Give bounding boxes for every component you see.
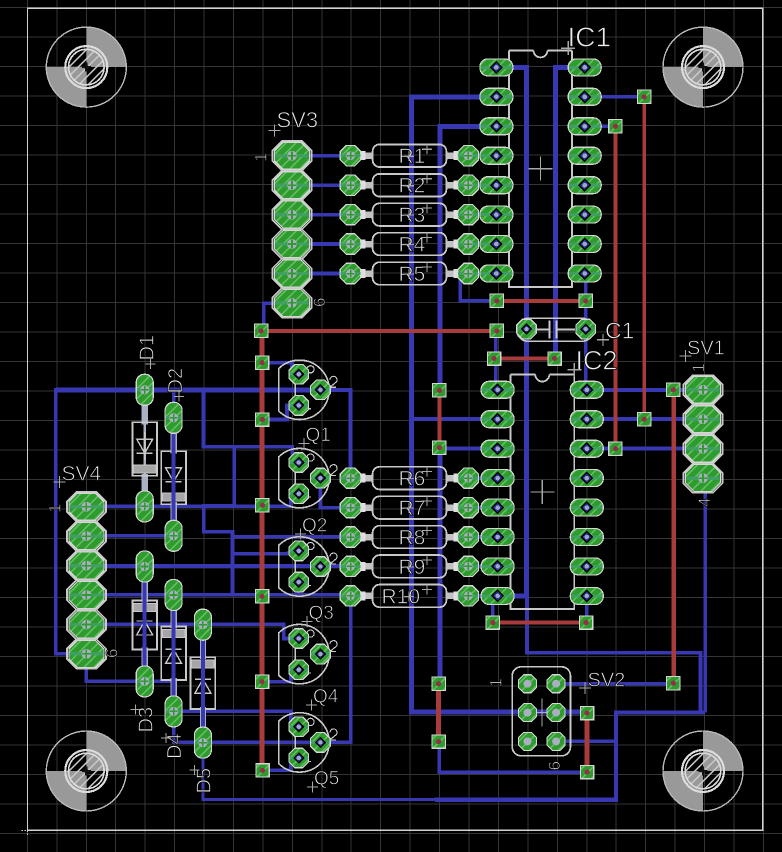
resistor R10 pads [340, 586, 478, 606]
resistor R4 pads [340, 234, 478, 254]
svg-text:C1: C1 [605, 318, 634, 344]
wire ground IC2 pin9 area down (blue) [527, 596, 701, 713]
wire SV2 to via right (blue) [556, 682, 673, 686]
resistor R3 body [357, 203, 462, 226]
wire SV4 pin3 D3 top Q2 collector R9 (blue) [86, 564, 350, 568]
origin cross IC2 [530, 480, 554, 504]
svg-text:D1: D1 [136, 335, 158, 361]
wire SV2 pin6 to ground run (blue) [556, 740, 616, 744]
wire red SV1 column down [672, 390, 677, 683]
svg-text:Q1: Q1 [306, 425, 331, 446]
resistor R6 body [357, 467, 462, 490]
resistor R6 pads [340, 468, 478, 488]
svg-text:6: 6 [545, 761, 564, 770]
svg-text:Q2: Q2 [302, 516, 327, 537]
wire via to top transistor emitter (blue) [262, 405, 298, 419]
via at 262,505 [256, 499, 269, 512]
wire red IC1 pin14 down [614, 126, 618, 448]
via at 644,419 [638, 413, 651, 426]
wire SV3 pin1 to R1 (blue) [292, 154, 351, 158]
wire SV4 pin4 D4 top R10 (blue) [86, 593, 350, 597]
transistor Q1 outline [279, 360, 329, 419]
svg-text:R10: R10 [382, 585, 421, 608]
diode D5 pads [194, 609, 211, 758]
wire IC1 pin14 to via (blue) [585, 125, 616, 129]
transistor Q3 pads [289, 541, 330, 592]
wire zigzag staircase from D1 top net (blue) [204, 390, 235, 595]
resistor R3 pads [340, 204, 478, 224]
wire SV4 pin2 to D2 bottom (blue) [86, 534, 172, 538]
header SV3 pads [275, 142, 310, 316]
diode D3 body [132, 577, 157, 672]
wire branch to Q1 base (blue) [234, 447, 299, 463]
transistor Q5 outline [279, 713, 329, 772]
wire red horizontal via row y330 [261, 329, 497, 333]
svg-text:IC2: IC2 [576, 346, 618, 376]
wire IC2 pin7 to SV1 pin2 (blue) [587, 417, 703, 421]
via at 554,358 [548, 352, 561, 365]
svg-text:D5: D5 [194, 768, 216, 794]
resistor R8 body [357, 526, 462, 549]
via at 439,390 [433, 384, 446, 397]
diode D3 pads [136, 551, 153, 697]
wire D4 bottom to Q4 base (blue) [174, 711, 299, 726]
wire D2 top stub (blue) [172, 390, 176, 418]
transistor Q4 pads [289, 629, 330, 680]
header SV2 outline [512, 667, 570, 756]
via at 586,301 [579, 294, 592, 307]
header SV4 outline [67, 492, 106, 669]
wire via to IC2 pin3 (blue) [440, 447, 498, 451]
svg-text:Q4: Q4 [313, 687, 339, 708]
svg-text:D4: D4 [164, 733, 186, 759]
diode D4 body [161, 605, 186, 701]
header SV4 pads [69, 493, 104, 667]
via at 439,684 [432, 677, 445, 690]
via at 262,770 [256, 764, 269, 777]
op-amp body IC1 [509, 50, 572, 287]
mounting hole [663, 731, 743, 811]
wire R1 to IC1 (blue) [468, 154, 496, 158]
transistor Q2 outline [279, 448, 329, 507]
wire R5 row extension to via (blue) [460, 272, 468, 276]
via at 493,623 [486, 616, 499, 629]
wire IC1 pin1 to C1 to IC2 pin16 (blue trunk) [496, 67, 526, 596]
header SV2 pads [519, 675, 566, 751]
wire SV3 pin4 to R4 (blue) [292, 242, 351, 246]
diode D4 pads [165, 580, 182, 727]
wire red via row y358 [494, 357, 555, 361]
wire red SV2 column [585, 713, 590, 772]
wire R2 to IC1 (blue) [468, 183, 496, 187]
op-amp IC2 pads [481, 381, 603, 604]
wire jog to Q2 emitter (blue) [297, 582, 301, 595]
resistor R5 pads [340, 263, 478, 283]
via at 586,623 [579, 616, 592, 629]
via at 262,363 [255, 356, 268, 369]
wire R4 to IC1 (blue) [468, 242, 496, 246]
via at 497,331 [490, 324, 503, 337]
svg-text:Q5: Q5 [314, 769, 339, 790]
wire ground bottom run left (blue) [203, 743, 436, 800]
transistor Q5 pads [289, 717, 330, 768]
wire red via jumper lower [436, 684, 441, 742]
transistor Q4 outline [279, 624, 329, 683]
wire red IC1 pin15 down [642, 97, 646, 419]
mounting hole [46, 27, 126, 107]
svg-text:6: 6 [103, 649, 122, 658]
diode D2 body [161, 428, 186, 526]
wire via chain to IC2 pin1 (blue) [494, 330, 498, 390]
wire IC1 pin15 to via (blue) [585, 95, 645, 99]
origin cross [21, 824, 33, 836]
wire ground bottom run right (blue) [435, 712, 705, 799]
header SV1 pads [686, 376, 721, 491]
via at 497,301 [490, 294, 503, 307]
transistor Q3 outline [279, 537, 329, 596]
via at 673,390 [667, 383, 680, 396]
wire via to top transistor base (blue) [262, 363, 299, 375]
resistor R1 body [357, 144, 462, 167]
svg-text:SV2: SV2 [588, 670, 626, 692]
op-amp body IC2 [510, 375, 574, 609]
diode D1 pads [136, 374, 153, 522]
wire R7 to IC2 (blue) [468, 506, 497, 510]
via at 261,331 [254, 324, 267, 337]
resistor R4 body [357, 233, 462, 256]
wire red jumper trunk B [437, 390, 441, 447]
wire trunk IC1 pin3 down (blue) [440, 126, 496, 390]
svg-text:SV4: SV4 [62, 463, 102, 486]
svg-text:4: 4 [695, 498, 714, 507]
wire R10 to IC2 (blue) [468, 594, 497, 598]
origin cross IC1 [529, 157, 553, 181]
wire IC1 pin16 to via (blue) [556, 67, 585, 358]
resistor R1 pads [340, 146, 478, 166]
wire through D5 (blue) [201, 624, 205, 742]
resistor R8 pads [340, 527, 478, 547]
via at 439,448 [433, 441, 446, 454]
capacitor C1 outline [517, 318, 594, 341]
transistor Q2 pads [289, 453, 330, 504]
wire D1 top to Q1 collector (blue) [56, 387, 321, 392]
via at 439,742 [432, 735, 445, 748]
wire SV4 pin1 to D1 bottom to Q1 emitter (blue) [86, 494, 298, 507]
wire R5 to IC1 (blue) [468, 272, 496, 276]
op-amp IC1 pads [480, 59, 601, 282]
wire left loop SV4 pin6 (blue) [56, 390, 145, 654]
svg-text:Q3: Q3 [309, 603, 334, 624]
wire through D3 (blue) [143, 567, 147, 682]
wire through D4 (blue) [172, 595, 176, 712]
wire SV3 pin6 to via (blue) [264, 303, 292, 331]
svg-text:1: 1 [689, 363, 708, 372]
mounting hole [46, 731, 126, 811]
svg-text:1: 1 [252, 153, 271, 162]
diode D1 body [132, 400, 157, 497]
resistor R10 body [357, 585, 462, 608]
resistor R2 body [357, 174, 462, 197]
diode D5 body [191, 635, 216, 733]
via at 262,596 [255, 590, 268, 603]
header SV1 outline [684, 375, 723, 493]
resistor R9 pads [340, 556, 478, 576]
wire Q2 collector to R7 (blue) [320, 478, 350, 508]
via at 673,683 [667, 677, 680, 690]
wire IC2 pin9 via to R10 (blue) [491, 596, 495, 623]
header SV3 outline [273, 141, 312, 318]
svg-text:D3: D3 [136, 707, 158, 733]
svg-text:SV1: SV1 [687, 338, 725, 360]
wire ground SV1 pin4 down (blue) [703, 478, 707, 712]
wire R9 to IC2 (blue) [468, 565, 497, 569]
wire branch to Q2 base (blue) [233, 551, 299, 554]
wire branch to IC2 pin2 (blue) [412, 417, 498, 421]
via at 262,682 [255, 675, 268, 688]
wire IC1 pin9 via C1 to IC2 pin16 (blue) [584, 274, 588, 390]
wire IC2 pin8 to SV1 pin1 (blue) [587, 388, 703, 392]
diode D2 pads [165, 402, 182, 551]
wire SV4 pin5 D5 top to Q3 base (blue) [86, 624, 298, 638]
wire red via row y301 [497, 299, 586, 303]
via at 587,713 [580, 706, 593, 719]
via at 494,358 [487, 352, 500, 365]
resistor R9 body [357, 555, 462, 578]
capacitor C1 pads [517, 319, 596, 339]
via at 615,449 [609, 442, 622, 455]
via at 615,126 [609, 120, 622, 133]
wire SV3 pin5 to R5 (blue) [292, 272, 351, 276]
wire IC2 pin6 to SV1 pin3 (blue) [587, 447, 703, 451]
svg-text:6: 6 [310, 298, 329, 307]
via at 587,772 [580, 765, 593, 778]
wire via to Q4 emitter (blue) [263, 758, 299, 770]
wire via to Q3 emitter (blue) [262, 670, 299, 682]
svg-text:D2: D2 [165, 368, 187, 394]
wire red vertical emitter bus [260, 331, 265, 771]
resistor R7 pads [340, 497, 478, 517]
wire trunk lower segment (blue) [438, 448, 443, 684]
wire R6 to IC2 (blue) [468, 476, 497, 480]
svg-text:SV3: SV3 [277, 108, 319, 133]
wire Q1 collector to R6 (blue) [320, 390, 350, 478]
resistor R5 body [357, 262, 462, 285]
wire R3 to IC1 (blue) [468, 213, 496, 217]
wire SV4 pin6 to D3 D4 D5 bottoms (blue) [86, 654, 144, 682]
wire R8 to IC2 (blue) [468, 535, 497, 539]
mounting hole [663, 27, 743, 107]
svg-text:1: 1 [487, 678, 506, 687]
wire branch to R8 (blue) [233, 535, 351, 539]
wire SV3 pin3 to R3 (blue) [292, 213, 351, 217]
via at 262,420 [256, 413, 269, 426]
svg-text:1: 1 [46, 504, 65, 513]
wire through D2 (blue) [172, 418, 176, 536]
resistor R2 pads [340, 175, 478, 195]
resistor R7 body [357, 496, 462, 519]
wire IC2 pin9 down (blue) [585, 596, 589, 623]
wire via to via row (blue) [439, 742, 587, 773]
wire red IC2 bottom row [493, 621, 586, 625]
wire trunk IC1 pin2 to SV2 (blue) [412, 97, 588, 712]
wire SV3 pin2 to R2 (blue) [292, 183, 351, 187]
transistor Q1 pads [289, 364, 330, 415]
via at 644,97 [638, 90, 651, 103]
wire R10 to Q4 collector (blue) [320, 595, 350, 742]
